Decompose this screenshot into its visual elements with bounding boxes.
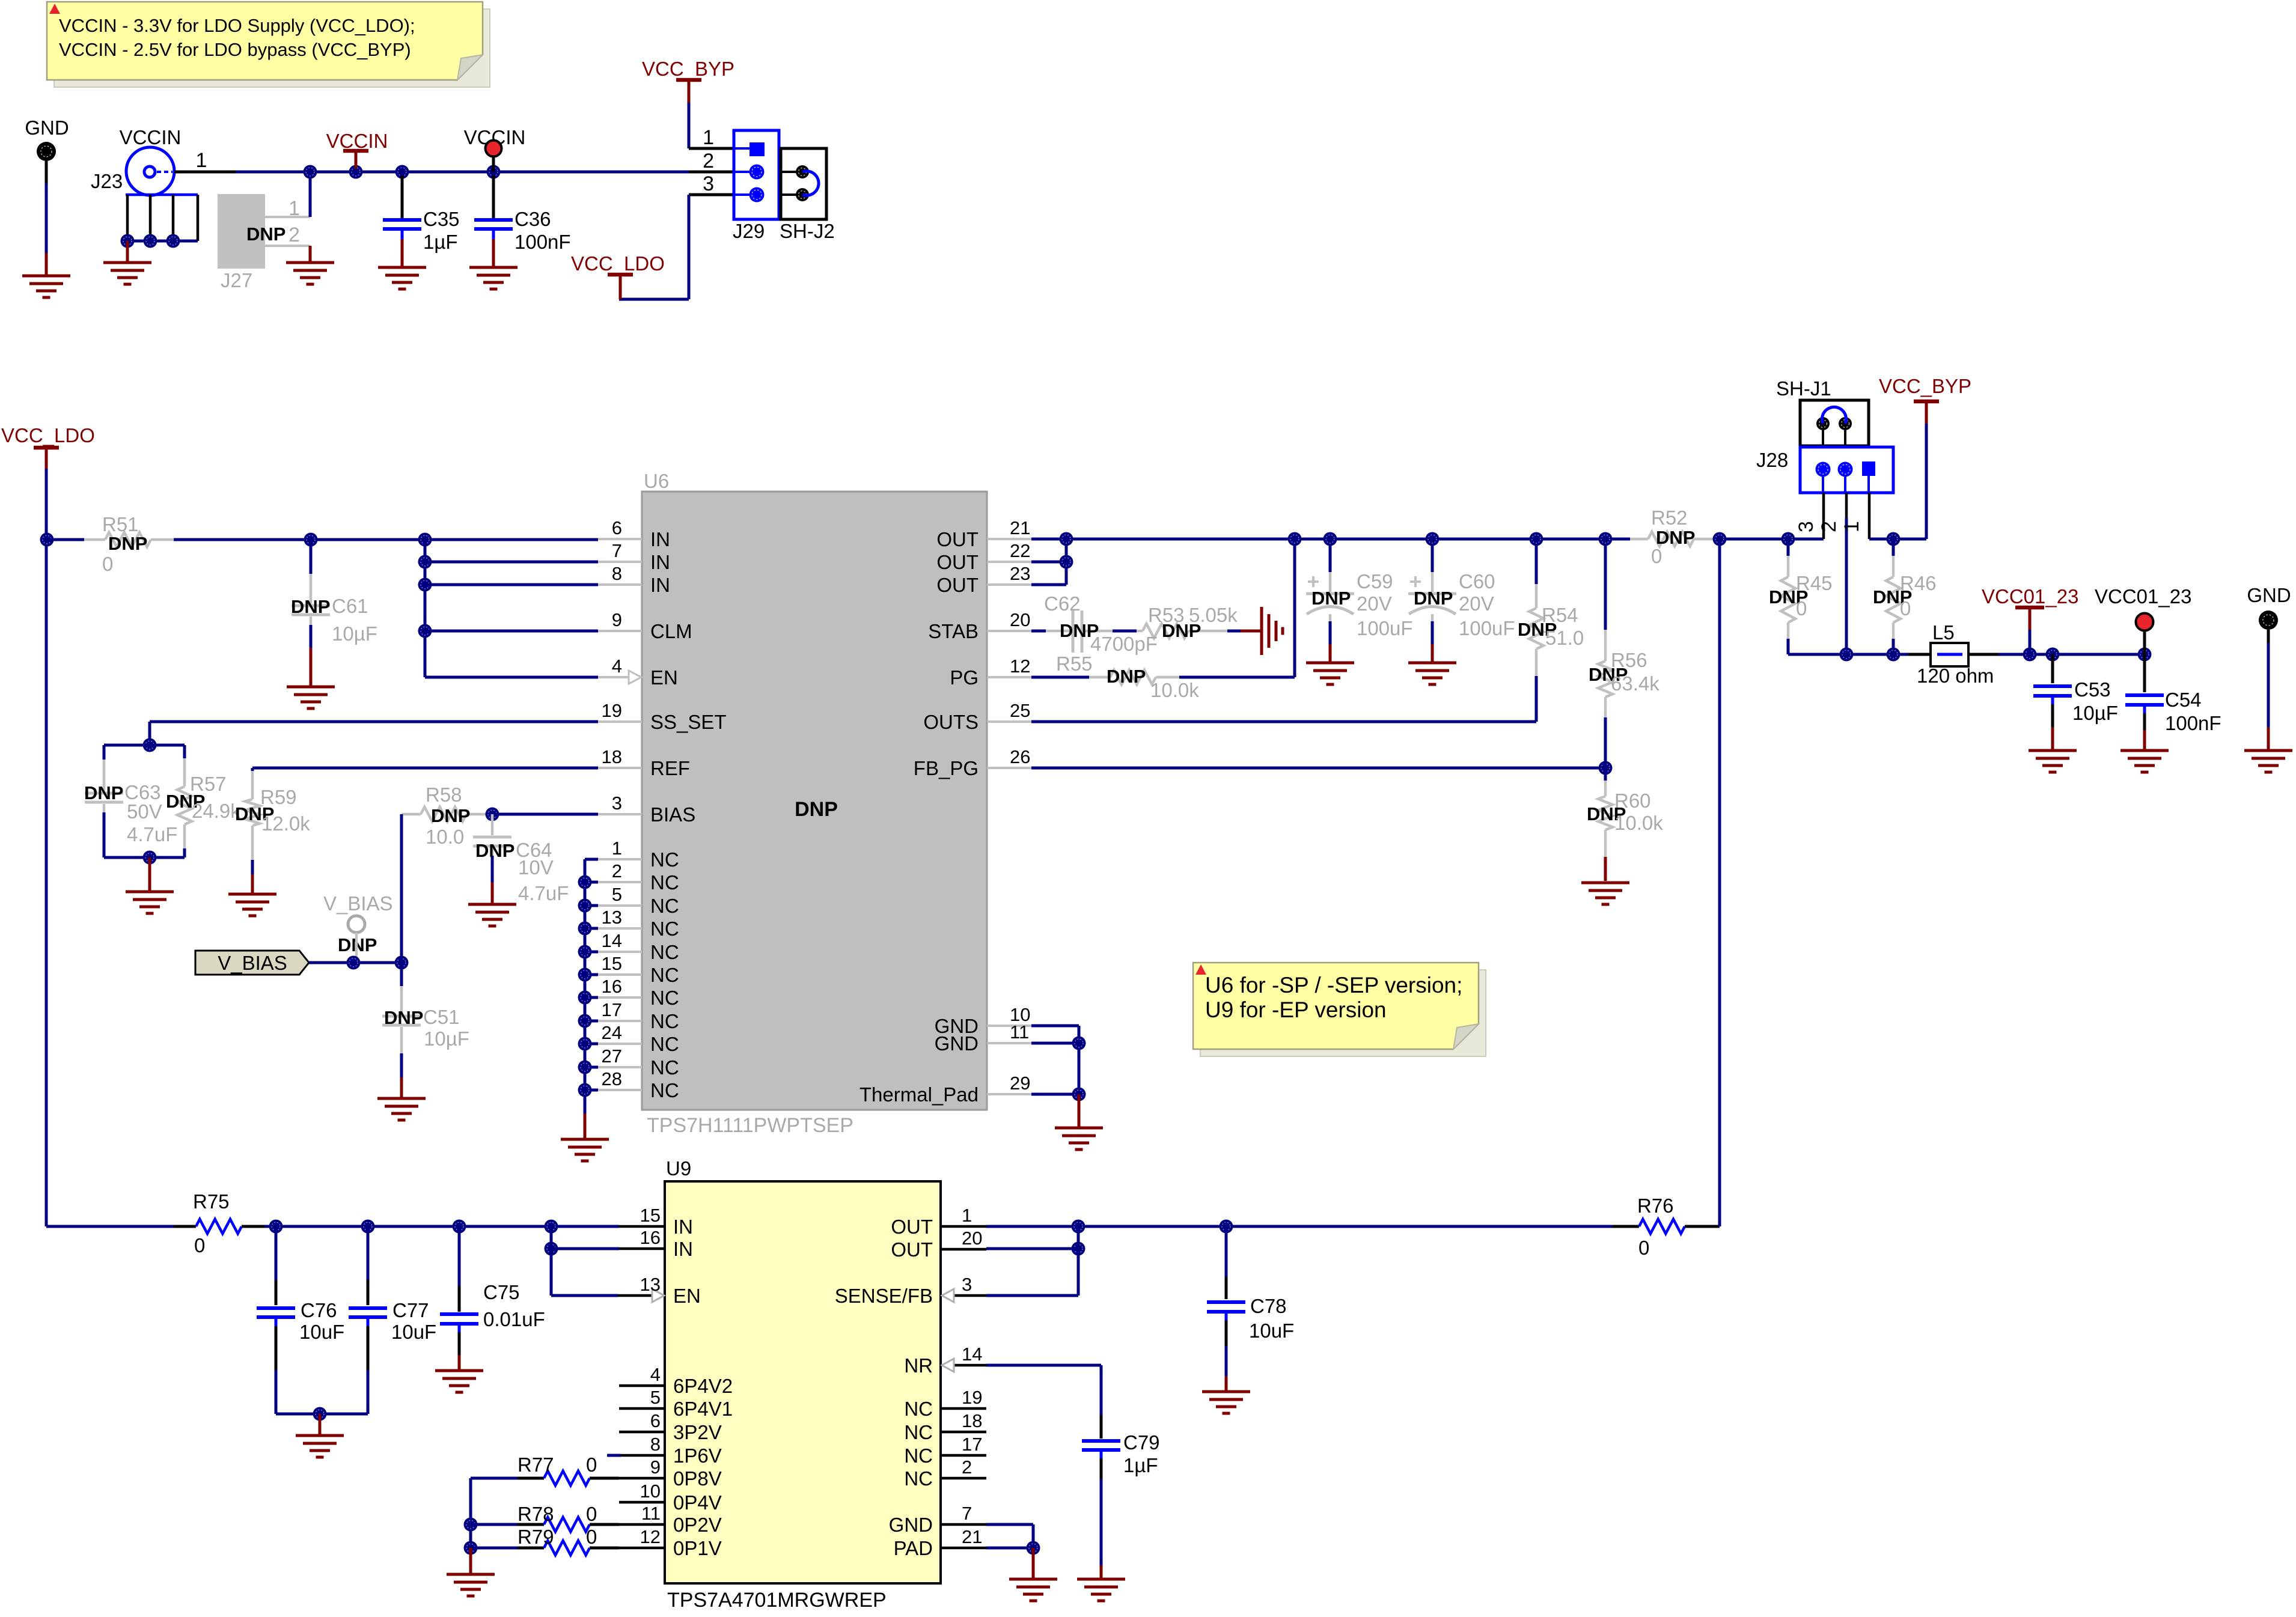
svg-text:CLM: CLM [650,620,692,642]
resistor R45 0 (DNP) [1787,539,1790,556]
svg-text:0: 0 [586,1454,597,1476]
svg-text:23: 23 [1010,563,1030,584]
svg-text:VCC_LDO: VCC_LDO [571,252,665,275]
capacitor C77 10uF [367,1226,370,1280]
jumper shunt SH-J2 [781,148,826,219]
svg-text:13: 13 [602,907,622,928]
svg-text:J28: J28 [1756,449,1788,471]
svg-text:IN: IN [650,551,670,573]
wire GND terminal stem [45,161,48,183]
ground (below C63/R57) [126,891,174,894]
svg-text:3: 3 [1795,521,1818,532]
U9 pin 15 IN [619,1225,665,1228]
svg-text:R55: R55 [1056,653,1093,675]
U9 pin 19 NC [941,1407,986,1410]
svg-text:U9: U9 [666,1157,691,1180]
note: VCCIN supply note [54,9,490,87]
svg-text:NR: NR [904,1354,933,1377]
svg-text:10.0k: 10.0k [1614,812,1663,834]
ground (below C75) [435,1369,483,1372]
U9 pin 21 PAD [941,1547,986,1550]
svg-text:IN: IN [673,1238,693,1260]
ground (below C78) [1202,1390,1250,1393]
resistor R58 10.0 (DNP) [401,813,421,816]
svg-text:10uF: 10uF [1249,1320,1294,1342]
svg-text:BIAS: BIAS [650,803,695,826]
wire NR to C79 [986,1364,1101,1367]
svg-text:C35: C35 [423,208,460,230]
ground (below J27) [286,261,334,264]
wire U6 NC bus [584,859,587,1113]
wire J23 shield to ground [126,241,129,263]
svg-text:3P2V: 3P2V [673,1421,722,1443]
svg-text:C61: C61 [332,595,368,617]
ground (below C53) [2029,749,2077,752]
ground (below J23) [103,261,151,264]
U6 pin 5 NC [598,904,642,907]
svg-text:DNP: DNP [431,805,470,826]
U6 pin 13 NC [598,927,642,930]
svg-text:NC: NC [650,895,679,917]
U9 pin 16 IN [619,1247,665,1250]
svg-text:10V: 10V [518,856,554,879]
svg-text:10.0: 10.0 [426,826,464,848]
ground (below U9 GND/PAD) [1009,1578,1057,1581]
svg-text:51.0: 51.0 [1545,627,1584,649]
ground (below GND terminal) [22,275,70,278]
svg-text:C62: C62 [1044,592,1081,615]
ground (below R59) [228,893,276,896]
svg-text:1: 1 [612,838,622,859]
U6 pin 17 NC [598,1020,642,1022]
svg-text:NC: NC [650,1033,679,1055]
svg-text:1: 1 [289,197,300,220]
wire BIAS vertical [400,814,403,963]
svg-text:10µF: 10µF [424,1028,469,1050]
svg-text:C59: C59 [1357,570,1393,592]
wire J28 pin1 leg [1868,493,1871,539]
svg-text:12.0k: 12.0k [261,812,310,835]
svg-text:R51: R51 [102,513,139,535]
wire R76 to OUT bus [1718,539,1721,1226]
svg-text:Thermal_Pad: Thermal_Pad [859,1083,979,1106]
node OUT bus junctions [1288,532,1302,546]
node VCCIN junctions [304,165,317,179]
svg-text:EN: EN [650,666,678,689]
svg-text:NC: NC [650,987,679,1009]
svg-text:R78: R78 [518,1503,554,1525]
ground (below NC bus) [561,1138,609,1141]
svg-text:20: 20 [1010,609,1030,630]
svg-text:IN: IN [650,574,670,596]
svg-text:100uF: 100uF [1357,617,1413,639]
svg-text:C51: C51 [423,1006,460,1028]
capacitor C63 4.7uF 50V (DNP) [104,744,185,747]
svg-text:C75: C75 [483,1281,520,1303]
svg-text:10µF: 10µF [332,623,377,645]
ground (below C64) [468,903,516,906]
svg-text:OUT: OUT [936,528,979,550]
svg-text:GND: GND [935,1032,979,1055]
svg-text:1µF: 1µF [423,231,458,253]
svg-text:VCCIN - 2.5V for LDO bypass (V: VCCIN - 2.5V for LDO bypass (VCC_BYP) [59,39,411,60]
wire U9 EN [551,1294,618,1297]
inductor L5 120 ohm [1908,653,1931,656]
svg-text:OUT: OUT [936,574,979,596]
capacitor C51 10uF (DNP) [400,963,403,986]
svg-text:R57: R57 [190,773,227,795]
svg-text:VCCIN - 3.3V for LDO Supply (V: VCCIN - 3.3V for LDO Supply (VCC_LDO); [59,15,415,36]
svg-text:5: 5 [650,1387,661,1408]
wire V_BIAS [309,961,401,964]
resistor R76 0 [1613,1225,1639,1228]
svg-text:DNP: DNP [246,224,285,245]
svg-text:0: 0 [586,1503,597,1525]
U6 pin 19 SS_SET [598,720,642,723]
svg-text:15: 15 [602,953,622,974]
wire to U6 pin 8 [425,583,598,586]
svg-text:DNP: DNP [291,596,330,617]
svg-text:1µF: 1µF [1123,1454,1158,1476]
svg-text:4.7uF: 4.7uF [518,882,569,904]
svg-text:1: 1 [962,1205,972,1226]
resistor R57 24.9k (DNP) [183,745,186,758]
svg-text:R76: R76 [1637,1195,1674,1217]
svg-text:100uF: 100uF [1459,617,1515,639]
resistor R52 0 (DNP) [1630,538,1648,541]
svg-text:25: 25 [1010,700,1030,721]
svg-text:VCC_BYP: VCC_BYP [1879,375,1971,397]
svg-text:100nF: 100nF [514,231,571,253]
svg-text:0: 0 [1651,545,1662,567]
svg-text:0P4V: 0P4V [673,1491,722,1514]
note: U6/U9 version note [1200,970,1486,1056]
U6 pin 26 FB_PG [987,767,1031,769]
svg-text:L5: L5 [1932,621,1955,644]
J23 shield bracket [126,193,198,196]
svg-text:9: 9 [650,1457,661,1478]
svg-text:PG: PG [950,666,979,689]
ground (below C79) [1077,1578,1125,1581]
IC U6 TPS7H1111PWPTSEP (DNP) [642,492,987,1110]
svg-text:SS_SET: SS_SET [650,711,727,733]
wire OUTS [1031,720,1536,723]
svg-text:OUTS: OUTS [923,711,979,733]
svg-text:R77: R77 [518,1454,554,1476]
svg-text:10: 10 [640,1481,661,1502]
wire J27 pin1 to VCCIN bus [309,172,312,217]
svg-text:OUT: OUT [891,1216,933,1238]
U9 pin 4 6P4V2 [619,1384,665,1387]
wire FB_PG [1031,767,1605,770]
resistor R54 51.0 (DNP) [1535,539,1538,584]
U6 pin 15 NC [598,973,642,976]
IC U9 TPS7A4701MRGWREP [665,1181,941,1583]
svg-text:SH-J2: SH-J2 [780,220,835,242]
svg-text:8: 8 [612,563,622,584]
svg-text:OUT: OUT [891,1238,933,1261]
svg-text:7: 7 [612,540,622,561]
svg-text:10.0k: 10.0k [1150,679,1199,701]
U6 pin 29 Thermal_Pad [987,1093,1031,1095]
resistor R51 0 (DNP) [47,538,84,541]
svg-text:R75: R75 [193,1190,230,1213]
U9 pin 20 OUT [941,1248,986,1251]
svg-text:12: 12 [640,1526,661,1547]
svg-text:63.4k: 63.4k [1611,672,1659,695]
svg-text:0: 0 [586,1526,597,1548]
wire R78/R79 to ground [469,1548,472,1573]
wire U9 GND/PAD tie [986,1523,1033,1526]
svg-text:OUT: OUT [936,551,979,573]
wire SS_SET [150,720,598,723]
svg-text:12: 12 [1010,656,1030,677]
U6 pin 20 STAB [987,630,1031,632]
U9 pin 14 NR [954,1364,986,1367]
capacitor C62 4700pF (DNP) + resistor R53 5.05k (DNP) on STAB [1031,630,1046,633]
svg-text:NC: NC [650,1056,679,1079]
capacitor C60 100uF 20V (DNP, polarized) [1431,539,1434,572]
svg-text:0: 0 [194,1234,205,1256]
U6 pin 25 OUTS [987,720,1031,723]
U6 pin 22 OUT [987,561,1031,563]
wire U6 GND pins tie [1031,1025,1079,1028]
svg-text:6P4V1: 6P4V1 [673,1398,733,1420]
svg-text:U6 for -SP / -SEP version;: U6 for -SP / -SEP version; [1205,973,1462,997]
svg-text:10uF: 10uF [391,1321,436,1343]
wire OUT pins tie [1031,561,1066,564]
wire to U6 pin 7 [425,561,598,564]
svg-text:1: 1 [703,126,714,149]
wire BIAS [486,808,499,821]
svg-text:11: 11 [1010,1022,1029,1043]
U9 pin 9 0P8V [619,1477,665,1480]
svg-text:GND: GND [25,117,69,139]
U9 pin 2 NC [941,1477,986,1480]
capacitor C53 10uF [2051,654,2054,683]
svg-text:15: 15 [640,1205,661,1226]
capacitor C59 100uF 20V (DNP, polarized) [1329,539,1332,572]
wire J23 shield tie [127,240,198,243]
svg-text:2: 2 [612,860,622,882]
U6 pin 27 NC [598,1066,642,1068]
node J23 shield junctions [121,234,135,248]
svg-text:4.7uF: 4.7uF [127,823,177,845]
svg-text:1: 1 [196,149,207,172]
wire VCCIN bus [236,171,734,174]
svg-text:NC: NC [904,1421,933,1443]
svg-text:SH-J1: SH-J1 [1776,377,1831,400]
U6 pin 24 NC [598,1043,642,1045]
svg-text:NC: NC [650,1079,679,1101]
svg-text:9: 9 [612,609,622,630]
svg-text:3: 3 [703,172,714,195]
svg-text:C78: C78 [1250,1295,1287,1317]
wire C76/C77 ground rail [276,1413,368,1416]
U9 pin 12 0P1V [619,1547,665,1550]
U6 pin 6 IN [598,538,642,540]
U6 pin 7 IN [598,561,642,563]
wire IN bottom bus [45,1225,48,1226]
svg-text:STAB: STAB [928,620,979,642]
svg-text:PAD: PAD [894,1537,933,1559]
svg-text:18: 18 [962,1410,982,1431]
svg-text:3: 3 [612,793,622,814]
capacitor C61 10uF (DNP) [310,540,313,574]
svg-text:NC: NC [650,871,679,894]
svg-text:NC: NC [650,848,679,871]
svg-text:1: 1 [1840,521,1863,532]
wire U9 OUT bus [986,1225,1613,1228]
svg-text:DNP: DNP [1311,588,1351,609]
svg-text:6: 6 [650,1410,661,1431]
svg-text:0: 0 [1638,1237,1649,1259]
U6 pin 14 NC [598,951,642,953]
U9 pin 13 EN [618,1294,652,1297]
svg-text:U9 for -EP version: U9 for -EP version [1205,997,1387,1022]
svg-text:17: 17 [602,999,622,1020]
svg-text:FB_PG: FB_PG [914,757,979,779]
wire REF [252,767,598,770]
svg-text:21: 21 [1010,517,1030,538]
U6 pin 1 NC [598,858,642,860]
svg-text:6: 6 [612,517,622,538]
ground (right-facing, after R53) [1260,607,1263,655]
capacitor C36 100nF [492,175,495,218]
resistor R55 10.0k (DNP) on PG [1031,676,1089,679]
U9 pin 17 NC [941,1454,986,1457]
svg-text:DNP: DNP [108,533,147,554]
node VCC_LDO/IN junction [40,533,54,547]
svg-text:J29: J29 [733,220,765,242]
wire VCC_BYP to J28 pin1 [1869,538,1926,541]
svg-text:DNP: DNP [384,1007,423,1028]
U6 pin 12 PG [987,676,1031,678]
svg-text:DNP: DNP [84,782,123,803]
svg-text:TPS7A4701MRGWREP: TPS7A4701MRGWREP [667,1589,887,1612]
svg-text:19: 19 [962,1387,982,1408]
svg-text:NC: NC [650,1010,679,1032]
U6 pin 11 GND [987,1042,1031,1044]
wire to U6 pin 9 CLM [425,630,598,633]
svg-text:C54: C54 [2165,689,2202,711]
svg-text:GND: GND [2247,584,2291,606]
ground (below U6 GND) [1055,1127,1103,1130]
svg-text:20V: 20V [1357,592,1392,615]
wire C63/R57 bottom tie [104,856,185,859]
svg-text:C36: C36 [514,208,551,230]
svg-text:18: 18 [602,746,622,767]
svg-text:0P2V: 0P2V [673,1514,722,1536]
capacitor C78 10uF [1225,1226,1228,1277]
svg-text:VCCIN: VCCIN [120,126,182,148]
svg-text:14: 14 [962,1344,982,1365]
svg-text:22: 22 [1010,540,1030,561]
U9 pin 18 NC [941,1431,986,1434]
svg-text:0: 0 [1900,597,1911,620]
svg-text:2: 2 [1818,521,1840,532]
svg-text:20: 20 [962,1228,982,1249]
ground (below C35) [378,266,426,269]
svg-text:10uF: 10uF [299,1321,344,1343]
svg-text:C77: C77 [392,1299,429,1321]
svg-text:NC: NC [650,918,679,940]
svg-text:2: 2 [289,224,300,246]
svg-text:REF: REF [650,757,690,779]
capacitor C76 10uF [275,1226,278,1280]
wire J27 pin2 to ground [309,246,312,263]
resistor R60 10.0k (DNP) [1604,768,1607,781]
svg-text:4: 4 [650,1364,661,1385]
wire J28 pin2 leg [1845,493,1848,518]
svg-text:0: 0 [102,553,113,575]
U6 pin 4 EN [598,676,629,678]
wire IN bus [174,538,598,541]
svg-text:5: 5 [612,884,622,905]
svg-text:GND: GND [889,1514,933,1536]
svg-text:120 ohm: 120 ohm [1917,665,1994,687]
U6 pin 2 NC [598,881,642,883]
svg-text:4: 4 [612,656,622,677]
svg-text:EN: EN [673,1285,701,1307]
svg-text:7: 7 [962,1503,972,1524]
svg-text:NC: NC [904,1467,933,1490]
U6 pin 8 IN [598,583,642,586]
svg-text:27: 27 [602,1046,622,1067]
svg-text:R79: R79 [518,1526,554,1548]
svg-text:DNP: DNP [795,798,838,821]
svg-text:0P8V: 0P8V [673,1467,722,1490]
U9 pin 1 OUT [941,1225,986,1228]
wire IN bus to U9 [264,1225,619,1228]
svg-text:IN: IN [650,528,670,550]
net label flag V_BIAS [195,951,309,975]
svg-text:19: 19 [602,700,622,721]
U6 pin 21 OUT [987,538,1031,540]
svg-text:VCC_LDO: VCC_LDO [1,424,95,446]
svg-text:16: 16 [602,976,622,997]
svg-text:U6: U6 [644,470,669,492]
U6 pin 23 OUT [987,583,1031,586]
svg-text:NC: NC [904,1398,933,1420]
svg-text:24: 24 [602,1022,622,1043]
U9 pin 10 0P4V [619,1501,665,1504]
resistor R59 12.0k (DNP) [251,768,254,771]
ground (below R60) [1581,882,1629,885]
svg-text:DNP: DNP [1107,666,1146,687]
connector J27 (DNP) [218,194,265,269]
svg-text:R52: R52 [1651,507,1688,529]
U6 pin 9 CLM [598,630,642,632]
svg-text:J27: J27 [221,269,252,291]
svg-text:TPS7H1111PWPTSEP: TPS7H1111PWPTSEP [647,1114,853,1137]
U9 pin 8 1P6V [607,1454,621,1457]
svg-text:2: 2 [962,1457,972,1478]
svg-text:V_BIAS: V_BIAS [323,892,393,915]
ground (below C54) [2120,749,2169,752]
wire PG to OUT [1293,539,1296,677]
svg-text:16: 16 [640,1227,661,1248]
svg-text:C53: C53 [2074,678,2111,701]
svg-text:DNP: DNP [1162,620,1201,641]
svg-text:28: 28 [602,1068,622,1089]
svg-text:50V: 50V [127,800,162,823]
svg-text:VCC_BYP: VCC_BYP [642,58,734,80]
ground (below C76/C77) [296,1434,344,1437]
svg-text:C60: C60 [1459,570,1495,592]
svg-text:13: 13 [640,1274,661,1295]
svg-text:SENSE/FB: SENSE/FB [835,1285,933,1307]
